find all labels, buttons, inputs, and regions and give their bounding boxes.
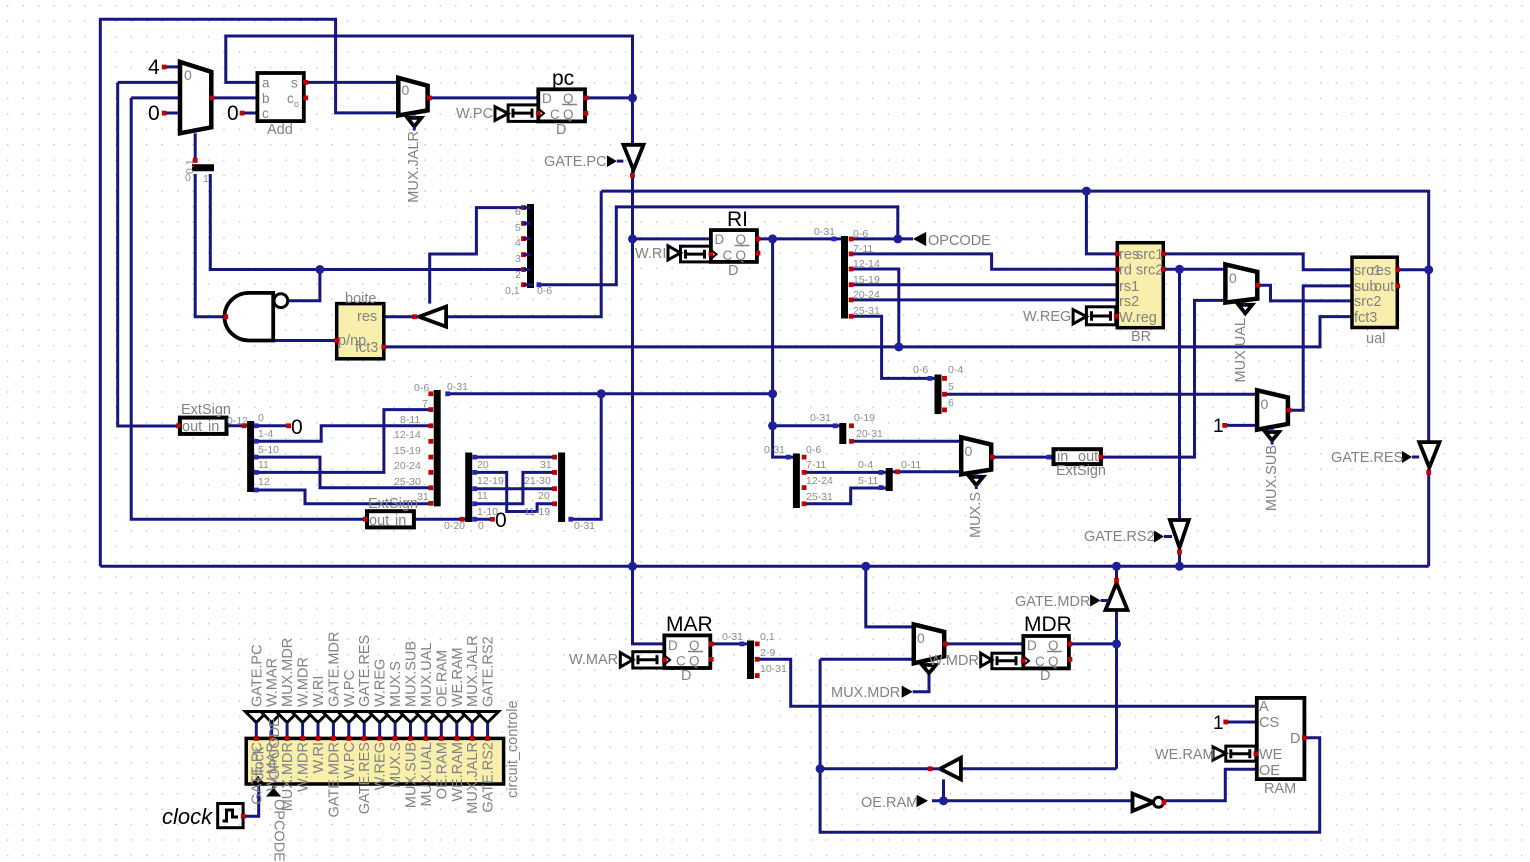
- node opcode junction: [893, 234, 902, 243]
- splitter inst fields for immJ: [524, 453, 595, 533]
- svg-text:0-31: 0-31: [722, 631, 743, 643]
- svg-text:MUX.JALR: MUX.JALR: [406, 131, 422, 203]
- svg-text:1: 1: [203, 173, 209, 185]
- svg-text:0-31: 0-31: [574, 520, 595, 532]
- mux MUX.JALR: [398, 78, 432, 203]
- svg-text:20-24: 20-24: [394, 460, 421, 472]
- svg-text:circuit_controle: circuit_controle: [505, 700, 521, 798]
- node const 1 MUX.SUB: [1213, 416, 1227, 437]
- svg-text:20-31: 20-31: [856, 428, 883, 440]
- svg-text:D: D: [1027, 638, 1037, 653]
- svg-text:MDR: MDR: [1024, 613, 1072, 636]
- svg-text:0: 0: [185, 172, 191, 184]
- svg-text:5: 5: [948, 381, 954, 393]
- svg-text:Q: Q: [1048, 654, 1059, 669]
- svg-text:1-4: 1-4: [258, 428, 273, 440]
- svg-text:0: 0: [917, 630, 925, 646]
- svg-text:0: 0: [1261, 396, 1269, 412]
- svg-text:CS: CS: [1259, 715, 1279, 731]
- wire MUX.UAL out to ual src2: [1258, 285, 1352, 301]
- svg-text:Q: Q: [563, 107, 574, 122]
- mux 4-input pc source: [162, 62, 215, 133]
- output pin MUX.SUB control: [400, 641, 422, 808]
- svg-text:fct3: fct3: [1354, 310, 1377, 326]
- svg-text:0: 0: [402, 82, 410, 98]
- svg-text:RI: RI: [727, 208, 748, 231]
- svg-text:1: 1: [1213, 713, 1224, 734]
- output pin WE.RAM control: [446, 647, 468, 801]
- box ual ALU: [1352, 257, 1400, 347]
- svg-text:0: 0: [965, 443, 973, 459]
- wire bus to MUX.MDR input 1: [866, 566, 914, 627]
- buffer GATE.RES: [1331, 442, 1440, 475]
- svg-text:WE.RAM: WE.RAM: [450, 647, 466, 707]
- svg-text:W.REG: W.REG: [373, 742, 389, 790]
- wire RI 7-11 to BR rd: [851, 254, 1117, 269]
- wire immB bit0 const: [256, 424, 288, 427]
- svg-text:GATE.RES: GATE.RES: [1331, 450, 1403, 466]
- svg-text:MUX.S: MUX.S: [388, 661, 404, 707]
- wire immB 5-10 from inst 25-30: [256, 457, 431, 488]
- svg-text:0-4: 0-4: [948, 364, 963, 376]
- wire to shift splitter trunk: [773, 424, 841, 427]
- svg-text:20: 20: [538, 490, 550, 502]
- wire RAM read buffer input: [961, 644, 1117, 769]
- wire bus loop left: bus to top to MUX.JALR input 2: [100, 19, 398, 566]
- output pin GATE.PC control: [245, 644, 267, 804]
- wire RI Q to splitter: [758, 237, 842, 240]
- wire 7-11 to merge splitter: [804, 471, 886, 474]
- svg-text:D: D: [1290, 731, 1300, 747]
- svg-text:5-10: 5-10: [258, 444, 279, 456]
- wire immB 12 from inst 31: [256, 490, 431, 504]
- svg-text:0,1: 0,1: [505, 285, 520, 297]
- svg-text:out: out: [369, 513, 389, 529]
- svg-text:c: c: [287, 91, 294, 106]
- input pin OPCODE control: [266, 785, 287, 862]
- box ExtSign 1: [176, 402, 248, 435]
- svg-text:C: C: [676, 654, 686, 669]
- box BR register bank with W.REG: [1023, 243, 1166, 345]
- svg-text:in: in: [208, 419, 219, 435]
- svg-text:o: o: [294, 99, 299, 109]
- svg-text:12-14: 12-14: [394, 429, 421, 441]
- node OE.RAM junction: [939, 796, 948, 805]
- svg-text:D: D: [668, 638, 678, 653]
- svg-text:2: 2: [515, 269, 521, 281]
- memory RAM: [1257, 698, 1307, 797]
- svg-text:31: 31: [540, 459, 552, 471]
- svg-text:10-31: 10-31: [760, 663, 787, 675]
- splitter immB merge: [242, 412, 280, 492]
- wire funct7 bit5 to MUX.SUB input 1: [945, 393, 1258, 396]
- svg-text:b: b: [262, 91, 270, 106]
- svg-text:OPCODE: OPCODE: [928, 233, 991, 249]
- register MDR with W.MDR: [929, 613, 1072, 684]
- wire immJ 11 from inst 20: [476, 487, 554, 490]
- svg-text:6: 6: [515, 206, 521, 218]
- wire immJ 12-19 from inst 12-19: [476, 472, 554, 511]
- svg-text:0: 0: [184, 67, 192, 83]
- svg-text:D: D: [728, 263, 738, 279]
- wire opcode trunk to OPCODE output: [539, 207, 913, 285]
- svg-text:0: 0: [478, 520, 484, 532]
- svg-text:W.PC: W.PC: [456, 106, 493, 122]
- svg-text:src1: src1: [1136, 247, 1163, 263]
- svg-text:MUX.JALR: MUX.JALR: [465, 742, 481, 814]
- svg-text:8-11: 8-11: [400, 414, 420, 426]
- svg-text:OPCODE: OPCODE: [267, 717, 283, 780]
- splitter RI fields: [814, 226, 880, 319]
- wire immB immU row: [448, 392, 773, 395]
- wire const 0 to mux input 4: [164, 112, 180, 115]
- wire MUX.MDR out to MDR D: [945, 642, 1023, 645]
- node funct3 junction: [894, 342, 903, 351]
- svg-text:W.MAR: W.MAR: [569, 652, 618, 668]
- svg-text:0-6: 0-6: [853, 228, 868, 240]
- mux MUX.SUB: [1257, 390, 1291, 511]
- svg-text:OE.RAM: OE.RAM: [861, 795, 918, 811]
- svg-text:0-31: 0-31: [810, 412, 831, 424]
- svg-text:GATE.MDR: GATE.MDR: [326, 632, 342, 707]
- node BR src2 junction: [1175, 265, 1184, 274]
- svg-text:WE: WE: [1259, 747, 1283, 763]
- input pin MUX.MDR: [831, 685, 913, 701]
- svg-text:3: 3: [515, 253, 521, 265]
- svg-text:MUX.SUB: MUX.SUB: [1264, 445, 1280, 511]
- splitter immJ merge: [444, 453, 504, 533]
- svg-text:ual: ual: [1366, 331, 1385, 347]
- svg-text:21-30: 21-30: [524, 475, 551, 487]
- buffer GATE.PC: [544, 145, 644, 178]
- output pin W.RI control: [307, 676, 329, 774]
- node shift splitter junction: [768, 421, 777, 430]
- svg-text:C: C: [550, 107, 560, 122]
- wire funct3 from boite to ual fct3: [384, 317, 1352, 347]
- svg-text:W.REG: W.REG: [1023, 309, 1071, 325]
- svg-text:0,1: 0,1: [760, 631, 775, 643]
- mux MUX.UAL: [1225, 264, 1260, 382]
- wire result net to buffer input: [446, 191, 1429, 317]
- svg-text:MUX.MDR: MUX.MDR: [831, 685, 900, 701]
- wire ExtSign1 in from merge splitter: [227, 424, 248, 427]
- svg-text:GATE.RS2: GATE.RS2: [1084, 529, 1155, 545]
- svg-text:12-24: 12-24: [806, 475, 833, 487]
- svg-text:W.reg: W.reg: [1119, 310, 1157, 326]
- wire bus horizontal: [100, 565, 1428, 568]
- output pin OE.RAM control: [430, 650, 452, 799]
- svg-text:MUX.UAL: MUX.UAL: [419, 643, 435, 707]
- svg-text:out: out: [1374, 279, 1394, 295]
- svg-text:0-31: 0-31: [447, 381, 468, 393]
- svg-text:GATE.MDR: GATE.MDR: [1015, 594, 1090, 610]
- svg-text:0: 0: [1229, 270, 1237, 286]
- wire GATE.RES output to bus: [1427, 469, 1430, 566]
- box boite branch unit: [334, 291, 386, 359]
- node bus GATE.RS2 junction: [1175, 562, 1184, 571]
- wire mux output to Add b: [212, 96, 257, 99]
- wire const 1 to RAM CS: [1226, 721, 1257, 724]
- svg-text:rd src2: rd src2: [1119, 263, 1163, 279]
- mux MUX.S: [961, 437, 995, 538]
- wire const 4 to mux: [164, 65, 180, 68]
- splitter shift field 0-19 20-31: [810, 412, 883, 444]
- svg-text:rs2: rs2: [1119, 294, 1139, 310]
- wire immJ 20 from inst 31: [476, 456, 554, 459]
- svg-text:7-11: 7-11: [853, 243, 873, 255]
- wire MAR Q to address splitter: [711, 642, 747, 645]
- buffer GATE.RS2: [1084, 520, 1189, 554]
- svg-text:GATE.PC: GATE.PC: [249, 644, 265, 707]
- svg-text:C: C: [1035, 654, 1045, 669]
- svg-text:W.RI: W.RI: [311, 742, 327, 773]
- svg-text:MUX.JALR: MUX.JALR: [465, 635, 481, 707]
- svg-text:D: D: [715, 232, 725, 247]
- wire bus to RI D: [633, 237, 711, 240]
- svg-text:MUX.SUB: MUX.SUB: [404, 742, 420, 808]
- mux MUX.MDR: [914, 624, 948, 673]
- splitter inst fields for immB: [394, 381, 468, 506]
- wire merge 0-11 to MUX.S input 2: [892, 470, 961, 473]
- svg-text:GATE.RS2: GATE.RS2: [481, 636, 497, 707]
- svg-text:0: 0: [495, 509, 507, 532]
- wire immJ 1-10 from inst 21-30: [476, 472, 554, 503]
- node bus MAR junction: [628, 562, 637, 571]
- svg-text:Add: Add: [267, 122, 293, 138]
- node pc Q junction: [628, 93, 637, 102]
- svg-text:MAR: MAR: [666, 613, 713, 636]
- svg-text:GATE.MDR: GATE.MDR: [326, 742, 342, 817]
- svg-text:20: 20: [477, 459, 489, 471]
- register pc with W.PC: [456, 67, 588, 138]
- svg-text:GATE.RES: GATE.RES: [357, 635, 373, 707]
- svg-text:11: 11: [477, 490, 488, 502]
- box ExtSign 2: [363, 496, 418, 529]
- svg-text:src2: src2: [1354, 294, 1381, 310]
- svg-text:20-24: 20-24: [853, 289, 880, 301]
- wire MUX.SUB out to ual sub: [1289, 286, 1352, 410]
- svg-text:OE.RAM: OE.RAM: [434, 742, 450, 799]
- input pin OE.RAM: [861, 795, 928, 811]
- svg-text:Q: Q: [689, 654, 700, 669]
- buffer RAM read west: [928, 758, 961, 780]
- svg-text:0-6: 0-6: [414, 382, 429, 394]
- gate NAND with negated input: [223, 293, 287, 341]
- svg-text:0-11: 0-11: [901, 459, 921, 471]
- wire ExtSign1 out up to mux input 2: [118, 82, 180, 426]
- svg-text:1: 1: [1213, 416, 1224, 437]
- svg-text:11: 11: [258, 459, 269, 471]
- svg-text:rs1: rs1: [1119, 279, 1139, 295]
- wire OE.RAM to NOT gate: [932, 799, 1133, 802]
- svg-text:W.REG: W.REG: [373, 659, 389, 707]
- wire immJ trunk to ExtSign2: [414, 518, 466, 521]
- output pin W.PC control: [338, 670, 360, 779]
- wire BR src1 to ual src1: [1164, 254, 1352, 270]
- splitter shamt fields: [764, 444, 833, 508]
- svg-text:5: 5: [515, 222, 521, 234]
- register MAR with W.MAR: [569, 613, 714, 684]
- wire mux select to splitter: [194, 133, 197, 161]
- svg-text:clock: clock: [252, 746, 268, 780]
- node result wire to BR res: [1082, 187, 1091, 196]
- svg-text:W.MDR: W.MDR: [296, 742, 312, 792]
- svg-text:Q: Q: [736, 248, 747, 263]
- svg-text:25-31: 25-31: [806, 491, 833, 503]
- output pin MUX.JALR control: [461, 635, 483, 813]
- register RI with W.RI: [635, 208, 760, 279]
- svg-text:MUX.SUB: MUX.SUB: [404, 641, 420, 707]
- wire const 1 to MUX.SUB input 2: [1225, 424, 1257, 427]
- svg-text:2-9: 2-9: [760, 647, 775, 659]
- splitter shamt merge 0-11: [858, 459, 921, 491]
- wire RI 12-14 to funct3 net: [851, 269, 899, 347]
- splitter MAR address field: [722, 631, 787, 679]
- svg-text:fct3: fct3: [355, 340, 378, 356]
- svg-text:WE.RAM: WE.RAM: [450, 742, 466, 802]
- node const 1 RAM CS: [1213, 713, 1228, 734]
- wire pc Q feedback to Add a: [226, 36, 633, 98]
- svg-text:BR: BR: [1131, 329, 1151, 345]
- svg-text:12: 12: [258, 476, 270, 488]
- node const 0 immJ: [490, 509, 507, 532]
- wire RAM read buffer output: [820, 767, 930, 770]
- svg-text:GATE.RS2: GATE.RS2: [481, 742, 497, 813]
- svg-text:MUX.UAL: MUX.UAL: [1233, 318, 1249, 382]
- adder Add: [257, 73, 308, 138]
- node bus MUX.MDR junction: [861, 562, 870, 571]
- svg-text:0-31: 0-31: [764, 444, 785, 456]
- output pin GATE.MDR control: [322, 632, 344, 818]
- svg-text:s: s: [291, 76, 298, 91]
- wire ExtSign2 out up to mux input 3: [131, 98, 365, 519]
- svg-text:4: 4: [515, 237, 521, 249]
- svg-text:boite: boite: [345, 291, 376, 307]
- node bus to RI D: [628, 234, 637, 243]
- wire RI value down to immediate splitters: [773, 239, 794, 457]
- wire main bus vertical GATE.PC to MAR: [633, 170, 665, 644]
- input pin clock: [162, 804, 246, 830]
- wire select splitter bit1 to opcode bit2: [210, 174, 522, 270]
- wire ExtSign3 out to MUX.UAL input 2: [1102, 300, 1226, 457]
- node const 0 Add c: [227, 102, 245, 125]
- wire GATE.PC input: [631, 98, 634, 145]
- svg-text:out: out: [182, 419, 202, 435]
- wire GATE.MDR input: [1115, 610, 1118, 644]
- svg-text:res: res: [357, 309, 377, 325]
- buffer GATE.MDR: [1015, 578, 1128, 610]
- node ual res junction: [1424, 265, 1433, 274]
- svg-text:W.RI: W.RI: [311, 676, 327, 707]
- svg-text:W.RI: W.RI: [635, 246, 666, 262]
- output pin W.MAR control: [261, 658, 283, 791]
- output pin W.REG control: [369, 659, 391, 791]
- wire MDR Q to GATE.MDR net: [1070, 642, 1117, 645]
- svg-text:D: D: [542, 91, 552, 106]
- svg-text:in: in: [395, 513, 406, 529]
- output pin MUX.UAL control: [415, 643, 437, 807]
- splitter funct7: [913, 364, 963, 414]
- svg-text:RAM: RAM: [1264, 781, 1296, 797]
- box ExtSign 3: [1047, 449, 1106, 479]
- svg-text:C: C: [723, 248, 733, 263]
- wire const 0 to Add c: [242, 112, 257, 115]
- svg-text:0: 0: [227, 102, 239, 125]
- wire MUX.JALR output to pc D: [429, 96, 538, 99]
- node const 0 immB: [286, 416, 302, 439]
- svg-text:clock: clock: [162, 804, 213, 829]
- output pin GATE.RES control: [353, 635, 375, 815]
- svg-text:W.PC: W.PC: [342, 742, 358, 779]
- svg-text:0: 0: [258, 412, 264, 424]
- splitter opcode bits: [505, 204, 552, 297]
- svg-text:WE.RAM: WE.RAM: [1155, 747, 1215, 763]
- wire GATE.MDR output to bus: [1115, 566, 1118, 582]
- wire buffer enable from opcode bit6: [430, 208, 524, 304]
- box circuit_controle: [246, 700, 521, 798]
- svg-text:0-4: 0-4: [858, 459, 873, 471]
- svg-text:GATE.RES: GATE.RES: [357, 742, 373, 814]
- wire NOT output to RAM OE: [1164, 769, 1257, 801]
- svg-text:7: 7: [422, 398, 428, 410]
- svg-text:15-19: 15-19: [853, 274, 880, 286]
- node imm row junction right: [768, 389, 777, 398]
- svg-text:0: 0: [148, 102, 160, 125]
- svg-text:W.MDR: W.MDR: [296, 657, 312, 707]
- svg-text:0-6: 0-6: [806, 444, 821, 456]
- svg-text:15-19: 15-19: [394, 445, 421, 457]
- svg-text:MUX.MDR: MUX.MDR: [280, 638, 296, 707]
- output pin W.MDR control: [292, 657, 314, 792]
- svg-text:D: D: [556, 122, 566, 138]
- wire NAND negated input to opcode bit2 net: [288, 270, 320, 301]
- wire OE.RAM to buffer enable: [942, 779, 945, 800]
- svg-text:ExtSign: ExtSign: [368, 496, 418, 512]
- node imm row junction left: [597, 389, 606, 398]
- svg-text:0: 0: [291, 416, 303, 439]
- svg-text:7-11: 7-11: [806, 459, 826, 471]
- svg-text:pc: pc: [552, 67, 574, 90]
- svg-text:0-20: 0-20: [444, 520, 465, 532]
- wire clock to control: [243, 785, 259, 817]
- wire RI 20-24 to BR rs2: [851, 298, 1117, 301]
- svg-text:5-11: 5-11: [858, 475, 878, 487]
- svg-text:D: D: [1040, 668, 1050, 684]
- node RI Q junction: [768, 234, 777, 243]
- wire immU trunk up to imm row: [571, 394, 601, 519]
- splitter mux select: [184, 158, 214, 185]
- svg-text:OE.RAM: OE.RAM: [434, 650, 450, 707]
- svg-text:4: 4: [148, 56, 160, 79]
- svg-text:6: 6: [948, 397, 954, 409]
- svg-text:ExtSign: ExtSign: [181, 402, 231, 418]
- wire MUX.MDR select: [913, 663, 929, 691]
- wire buffer output to boite res: [384, 315, 415, 318]
- svg-text:25-31: 25-31: [853, 305, 880, 317]
- node MDR Q junction: [1112, 639, 1121, 648]
- svg-text:c: c: [262, 106, 269, 121]
- clock gate WE.RAM: [1155, 746, 1258, 763]
- svg-text:W.MDR: W.MDR: [929, 653, 979, 669]
- svg-text:ExtSign: ExtSign: [1056, 463, 1106, 479]
- svg-text:MUX.UAL: MUX.UAL: [419, 742, 435, 806]
- output pin OPCODE: [913, 232, 991, 249]
- wire 20-31 to MUX.S input 1: [852, 440, 962, 443]
- wire NAND input 2 to boite p/np: [273, 339, 337, 342]
- svg-text:D: D: [681, 668, 691, 684]
- svg-text:res: res: [1371, 263, 1391, 279]
- wire address 2-9 to RAM A: [757, 659, 1257, 706]
